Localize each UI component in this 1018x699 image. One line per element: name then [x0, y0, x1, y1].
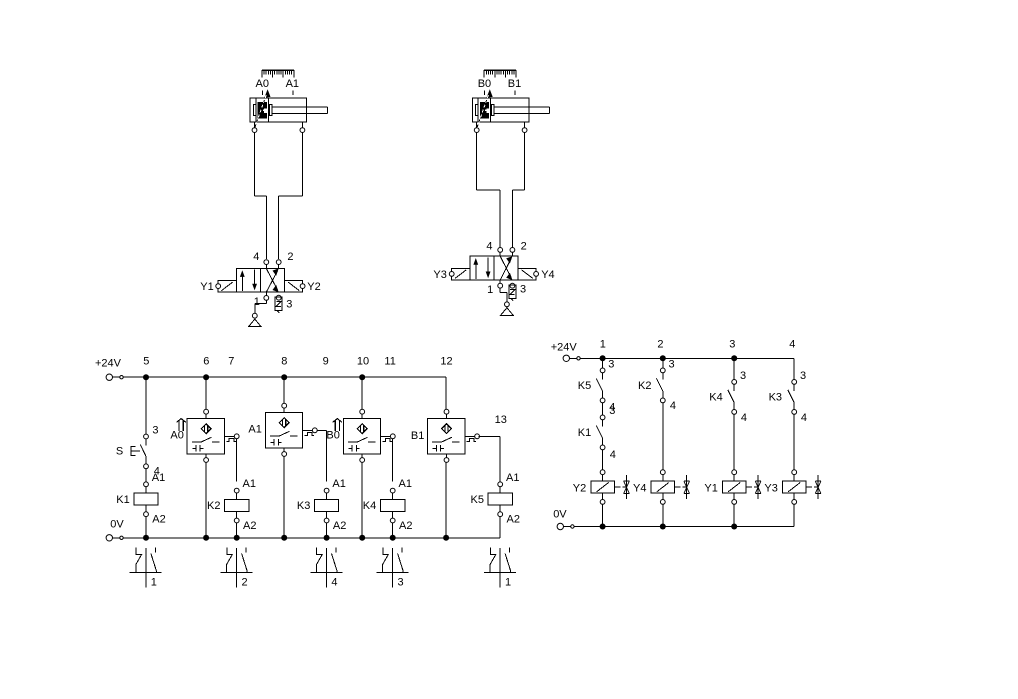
svg-text:A1: A1 [506, 472, 519, 484]
wire sensor A0 bottom to 0V rail [205, 462, 207, 537]
svg-text:2: 2 [657, 338, 663, 350]
sensor top pin [360, 409, 365, 418]
wire switch S to coil K1 [145, 469, 147, 483]
wire rung 12 from +24V rail to sensor B1 [445, 377, 447, 409]
wire cylinder B right port to valve port 2 [512, 133, 524, 248]
svg-text:0V: 0V [110, 518, 124, 530]
svg-text:K2: K2 [207, 500, 220, 512]
svg-text:B0: B0 [478, 78, 491, 90]
cylinder B right port [522, 122, 527, 133]
wire rung 2 top [662, 358, 664, 368]
relay coil K3 [315, 488, 339, 523]
svg-text:K1: K1 [578, 427, 591, 439]
valve V2 port 1 connector [498, 280, 503, 288]
svg-text:A1: A1 [332, 478, 345, 490]
svg-text:A1: A1 [248, 423, 261, 435]
contact K5 [596, 368, 605, 403]
switch S with detent [131, 434, 149, 469]
wire rung 6 from +24V rail to sensor A0 [205, 377, 207, 409]
svg-text:1: 1 [151, 577, 157, 589]
sensor position mark A0 [261, 91, 263, 96]
valve V2 left position arrows [473, 257, 490, 278]
svg-text:B1: B1 [411, 430, 424, 442]
svg-text:A1: A1 [399, 478, 412, 490]
svg-text:6: 6 [203, 356, 209, 368]
contact K1 [596, 415, 605, 450]
relay coil K5 [488, 482, 512, 517]
wire coil Y1 to 0V rail [733, 504, 735, 526]
svg-text:8: 8 [281, 356, 287, 368]
proximity sensor B1 box [428, 418, 465, 454]
magnet arrow B0 [333, 419, 342, 431]
wire coil K3 to 0V rail [326, 523, 328, 538]
valve solenoid coil Y2 [591, 470, 615, 504]
relay coil K1 [134, 482, 158, 517]
svg-text:A1: A1 [286, 78, 299, 90]
svg-text:A1: A1 [243, 478, 256, 490]
wire coil K4 to 0V rail [392, 523, 394, 538]
svg-text:3: 3 [286, 298, 292, 310]
0V supply terminal (right ladder) [557, 523, 574, 529]
valve V1 crossed position arrows [266, 268, 278, 292]
0V supply terminal (left ladder) [106, 535, 123, 541]
svg-text:A2: A2 [152, 514, 165, 526]
sensor output pin [225, 434, 240, 441]
wire rung 4 top [793, 358, 795, 379]
wire rung 5 from +24V rail to switch S [145, 377, 147, 434]
sensor position mark B0 [484, 91, 486, 96]
valve cross-reference symbol for Y2 [614, 475, 629, 499]
wire between contacts K5 and K1 [602, 403, 604, 415]
+24V rail (right ladder) [580, 357, 794, 359]
svg-text:4: 4 [670, 400, 676, 412]
wire sensor B1 output to coil K5 [479, 436, 501, 482]
svg-text:1: 1 [600, 338, 606, 350]
wire sensor B1 bottom to 0V rail [445, 462, 447, 537]
svg-text:K2: K2 [638, 380, 651, 392]
junction dots on +24V rail (right) [600, 355, 738, 361]
valve cross-reference symbol for Y3 [806, 475, 821, 499]
wire sensor A1 bottom to 0V rail [283, 456, 285, 537]
solenoid Y2 [284, 281, 305, 293]
wire rung 10 from +24V rail to sensor B0 [361, 377, 363, 409]
svg-text:A0: A0 [256, 78, 269, 90]
contact assignment table of relay K4 (rung 3) [376, 548, 408, 589]
wire coil K2 to 0V rail [236, 523, 238, 538]
svg-text:4: 4 [610, 449, 616, 461]
valve V2 crossed position arrows [500, 256, 512, 280]
silencer on valve V2 port 3 [509, 283, 516, 300]
solenoid Y1 [216, 281, 237, 293]
wire coil K5 to 0V rail [499, 517, 501, 538]
proximity sensor A1 box [265, 412, 302, 448]
wire cylinder A left port to valve port 4 [255, 133, 267, 259]
proximity sensor A0 box [187, 418, 224, 454]
svg-text:A2: A2 [507, 514, 520, 526]
sensor position mark B1 [514, 91, 516, 96]
svg-text:+24V: +24V [95, 357, 122, 369]
svg-text:Y1: Y1 [704, 483, 717, 495]
wire coil Y3 to 0V rail [793, 504, 795, 526]
svg-text:3: 3 [669, 359, 675, 371]
svg-text:4: 4 [789, 338, 795, 350]
ruler scale B [484, 70, 516, 77]
svg-text:3: 3 [609, 405, 615, 417]
+24V supply terminal (right ladder) [563, 355, 580, 361]
exhaust below valve V2 [501, 302, 514, 315]
svg-text:K3: K3 [769, 392, 782, 404]
contact assignment table of relay K1 (rung 1) [130, 548, 162, 589]
svg-text:3: 3 [398, 577, 404, 589]
wire rung 3 top [733, 358, 735, 379]
svg-text:Y3: Y3 [764, 483, 777, 495]
svg-text:Y1: Y1 [200, 281, 213, 293]
svg-text:B1: B1 [508, 78, 521, 90]
contact K4 [728, 380, 737, 415]
svg-text:A2: A2 [333, 520, 346, 532]
contact assignment table of relay K5 (rung 1) [484, 548, 516, 589]
magnet arrow A0 [177, 419, 186, 431]
cylinder A body [250, 95, 327, 127]
svg-text:K4: K4 [709, 392, 722, 404]
exhaust below valve V1 [249, 313, 262, 326]
valve V2 port 2 connector [510, 248, 515, 257]
svg-text:Y2: Y2 [573, 483, 586, 495]
valve V1 body [237, 268, 285, 292]
svg-text:Y4: Y4 [633, 483, 646, 495]
junction dots on +24V rail [143, 374, 365, 380]
svg-text:4: 4 [741, 412, 747, 424]
svg-text:K5: K5 [578, 380, 591, 392]
sensor bottom pin [204, 454, 209, 462]
junction dots on 0V rail (right) [600, 524, 738, 530]
svg-text:3: 3 [608, 359, 614, 371]
contact assignment table of relay K2 (rung 2) [220, 548, 252, 589]
wire contact K2 to coil Y4 [662, 403, 664, 470]
valve cross-reference symbol for Y1 [746, 475, 761, 499]
svg-text:9: 9 [323, 356, 329, 368]
wire sensor B0 bottom to 0V rail [361, 462, 363, 537]
contact K2 [656, 368, 665, 403]
valve V1 port 2 connector [276, 260, 281, 269]
svg-text:Y2: Y2 [307, 281, 320, 293]
svg-text:4: 4 [801, 412, 807, 424]
svg-text:1: 1 [505, 577, 511, 589]
valve cross-reference symbol for Y4 [675, 475, 690, 499]
sensor output pin [465, 434, 480, 441]
0V rail (left ladder) [123, 537, 500, 539]
relay coil K2 [225, 488, 249, 523]
svg-text:13: 13 [495, 414, 507, 426]
svg-text:Y3: Y3 [433, 269, 446, 281]
wire valve V1 port 1 to exhaust [255, 300, 266, 313]
svg-text:+24V: +24V [551, 341, 578, 353]
svg-text:A2: A2 [399, 520, 412, 532]
silencer on valve V1 port 3 [275, 295, 282, 312]
svg-text:11: 11 [384, 356, 395, 368]
proximity sensor B0 box [343, 418, 380, 454]
valve V2 body [470, 256, 518, 280]
wire valve V2 port 1 to exhaust [500, 288, 507, 302]
svg-text:2: 2 [521, 240, 527, 252]
sensor bottom pin [360, 454, 365, 462]
svg-text:1: 1 [487, 284, 493, 296]
sensor output pin [303, 428, 318, 435]
wire rung 1 top [602, 358, 604, 368]
valve V1 left position arrows [240, 270, 257, 291]
svg-text:2: 2 [287, 251, 293, 263]
piston position arrow B [487, 89, 493, 97]
0V rail (right ladder) [574, 526, 794, 528]
svg-text:3: 3 [729, 338, 735, 350]
relay coil K4 [381, 488, 405, 523]
wire rung 8 from +24V rail to sensor A1 [283, 377, 285, 403]
solenoid Y4 [518, 268, 539, 280]
solenoid Y3 [449, 268, 470, 280]
valve solenoid coil Y4 [651, 470, 675, 504]
junction dots on 0V rail [143, 535, 449, 541]
wire coil Y2 to 0V rail [602, 504, 604, 526]
svg-text:A0: A0 [170, 429, 183, 441]
svg-text:2: 2 [242, 577, 248, 589]
svg-text:3: 3 [152, 424, 158, 436]
+24V rail (left ladder) [123, 376, 446, 378]
valve V1 port 1 connector [264, 292, 269, 300]
wire contact K3 to coil Y3 [793, 414, 795, 470]
+24V supply terminal (left ladder) [106, 374, 123, 380]
cylinder A left port [252, 122, 257, 133]
svg-text:10: 10 [357, 356, 369, 368]
valve solenoid coil Y3 [782, 470, 806, 504]
cylinder A right port [300, 122, 305, 133]
sensor bottom pin [444, 454, 449, 462]
svg-text:K3: K3 [297, 500, 310, 512]
valve solenoid coil Y1 [722, 470, 746, 504]
wire sensor A0 output to coil K2 [236, 439, 238, 482]
sensor top pin [444, 409, 449, 418]
svg-text:B0: B0 [326, 429, 339, 441]
svg-text:K4: K4 [363, 500, 376, 512]
svg-text:4: 4 [253, 251, 259, 263]
svg-text:4: 4 [331, 577, 337, 589]
sensor top pin [282, 403, 287, 412]
wire cylinder A right port to valve port 2 [279, 133, 303, 259]
cylinder B body [472, 95, 549, 127]
valve V2 port 4 connector [498, 248, 503, 257]
sensor output pin [381, 434, 396, 441]
svg-text:7: 7 [228, 356, 234, 368]
piston position arrow A [264, 89, 270, 97]
sensor position mark A1 [292, 91, 294, 96]
svg-text:3: 3 [800, 370, 806, 382]
contact K3 [788, 380, 797, 415]
svg-text:K1: K1 [116, 494, 129, 506]
contact assignment table of relay K3 (rung 4) [310, 548, 342, 589]
svg-text:S: S [116, 445, 123, 457]
wire contact K1 to coil Y2 [602, 450, 604, 470]
svg-text:4: 4 [486, 240, 492, 252]
wire coil K1 to 0V rail [145, 517, 147, 538]
wire cylinder B left port to valve port 4 [477, 133, 501, 248]
wire coil Y4 to 0V rail [662, 504, 664, 526]
svg-text:Y4: Y4 [541, 269, 554, 281]
ruler scale A [262, 70, 294, 77]
svg-text:A1: A1 [152, 472, 165, 484]
svg-text:5: 5 [143, 356, 149, 368]
svg-text:12: 12 [440, 356, 452, 368]
wire contact K4 to coil Y1 [733, 414, 735, 470]
wire sensor A1 output to coil K3 [317, 430, 326, 481]
svg-text:0V: 0V [553, 508, 567, 520]
sensor bottom pin [282, 448, 287, 456]
cylinder B left port [474, 122, 479, 133]
svg-text:3: 3 [520, 283, 526, 295]
sensor top pin [204, 409, 209, 418]
svg-text:A2: A2 [243, 520, 256, 532]
svg-text:K5: K5 [471, 494, 484, 506]
valve V1 port 4 connector [264, 260, 269, 269]
wire sensor B0 output to coil K4 [392, 439, 394, 482]
svg-text:3: 3 [740, 370, 746, 382]
